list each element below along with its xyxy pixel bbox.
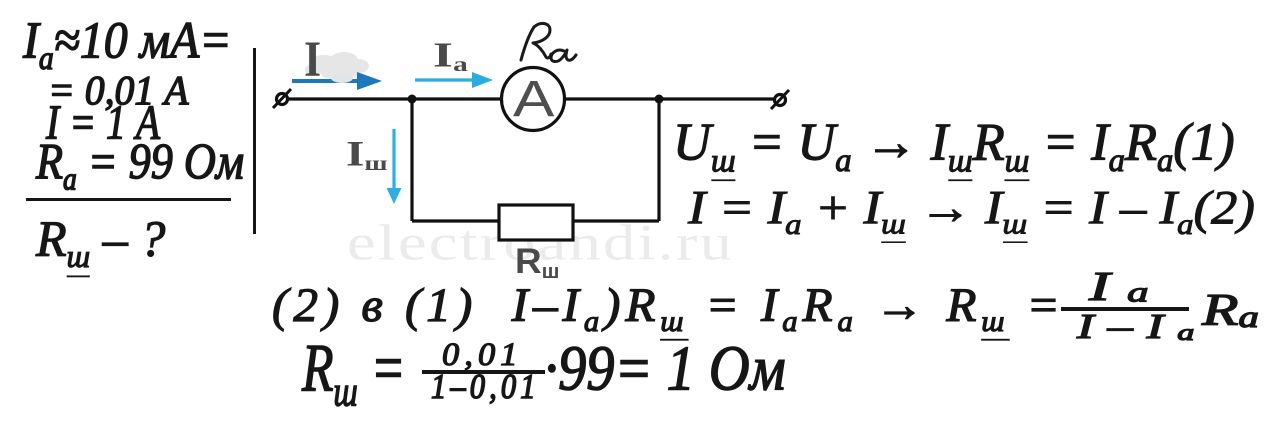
equation row 3 main bbox=[272, 281, 1065, 336]
wire: bottom horizontal bbox=[412, 219, 659, 222]
equation row 3 fraction numerator Ia bbox=[1089, 266, 1166, 307]
equation row 4 lead Rsh = bbox=[302, 334, 406, 413]
equation row 4 tail: *99 = 1 Om bbox=[544, 336, 786, 400]
erased smudge over arrow bbox=[331, 73, 353, 83]
equation row 3 trailing Ra bbox=[1202, 288, 1259, 333]
equation row 4 fraction denominator 1-0,01 bbox=[431, 370, 540, 405]
equation row 4 fraction bar bbox=[422, 370, 545, 374]
equation row 2 bbox=[688, 184, 1255, 240]
current arrow J (dark blue) bbox=[292, 79, 362, 83]
label Ish bbox=[346, 136, 388, 175]
wire: main horizontal bbox=[288, 97, 776, 100]
label Rsh under resistor bbox=[515, 244, 560, 283]
equation row 4 fraction numerator 0,01 bbox=[442, 339, 523, 372]
node: left junction bbox=[408, 95, 417, 104]
equation row 3 fraction bar bbox=[1061, 307, 1189, 311]
ammeter letter A bbox=[513, 75, 554, 126]
given L2: = 0,01 A bbox=[48, 70, 188, 112]
wire: left vertical branch bbox=[410, 99, 413, 221]
given fraction bar bbox=[26, 198, 231, 201]
watermark electroandi.ru bbox=[347, 213, 734, 272]
given L1: Ia ~ 10 mA = bbox=[23, 15, 232, 75]
erased smudge bbox=[305, 52, 369, 79]
given question: Rsh - ? bbox=[36, 214, 165, 273]
current arrow Ish (light blue, down) bbox=[392, 129, 395, 191]
given L3: I = 1 A bbox=[46, 98, 160, 147]
node: right junction bbox=[655, 95, 664, 104]
given L4: Ra = 99 Om bbox=[36, 137, 244, 196]
label Ra (handwritten) bbox=[521, 23, 576, 61]
terminal left bbox=[277, 94, 288, 105]
terminal right bbox=[775, 95, 786, 106]
equation row 1 bbox=[673, 116, 1235, 177]
resistor Rsh bbox=[499, 205, 573, 240]
ammeter U1 bbox=[502, 68, 565, 131]
current arrow Ia (light blue) bbox=[415, 78, 474, 81]
equation row 3 fraction denominator I-Ia bbox=[1077, 309, 1208, 345]
label Ia bbox=[433, 38, 468, 75]
wire: right vertical branch bbox=[657, 99, 660, 221]
vertical separator bbox=[253, 48, 256, 234]
label J bbox=[304, 35, 321, 85]
